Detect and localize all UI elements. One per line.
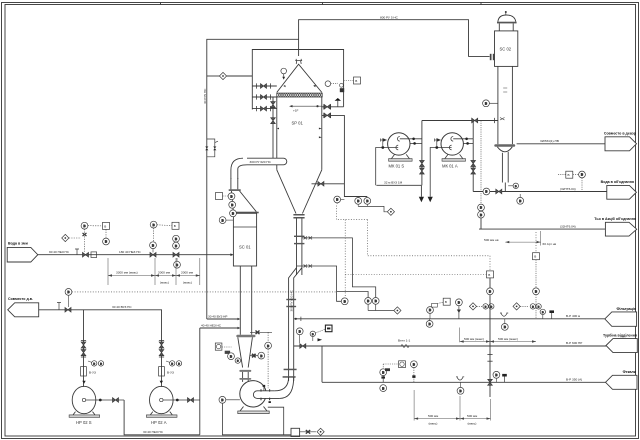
solenoid box NO: [225, 351, 230, 354]
svg-text:(макс): (макс): [160, 281, 169, 285]
dotted signal path center: [336, 203, 536, 298]
flag L2 outflow left: [8, 303, 39, 317]
diamond connector mid: [387, 208, 394, 215]
SC01 top flange: [229, 189, 241, 191]
MK01A drain drop: [471, 139, 476, 192]
svg-text:30 40 ВУЗ НС: 30 40 ВУЗ НС: [112, 305, 132, 309]
instrument circle B1 venturi: [228, 353, 235, 360]
circle T on x536 drop: [533, 253, 540, 319]
riser line from SP01 right taps: [344, 115, 367, 196]
diamond connector lower: [394, 307, 401, 314]
svg-text:300 РУ 620 НС: 300 РУ 620 НС: [250, 160, 272, 164]
svg-text:32РМ4(1)-НВ: 32РМ4(1)-НВ: [540, 139, 559, 143]
svg-text:B: B: [355, 79, 357, 83]
svg-text:B: B: [534, 255, 536, 259]
instrument circle below square B: [103, 229, 110, 245]
wire top header from SP01 vent to SC02 drop: [299, 20, 469, 57]
svg-text:+1F: +1F: [293, 108, 299, 112]
compressor MK01A: [441, 133, 473, 162]
instrument circle L2: [334, 196, 345, 203]
wire water line y254.7: [38, 254, 232, 256]
strainer on NP02A drop: [159, 367, 174, 376]
svg-text:Тьо в Акціб об'єднання: Тьо в Акціб об'єднання: [594, 217, 636, 221]
svg-text:В-Р 600 НР: В-Р 600 НР: [566, 341, 582, 345]
discharge riser MK01S: [420, 121, 425, 186]
svg-text:Фекали: Фекали: [623, 370, 636, 374]
diamond sensor 1 on line A: [469, 303, 494, 310]
base drain drop: [268, 407, 284, 435]
vent arrow on line A right: [549, 310, 554, 318]
SP01 left tap y97: [252, 94, 276, 99]
SC02 level dimension: [505, 231, 540, 246]
flag R3: [605, 222, 636, 236]
strainer on NP02S drop: [81, 367, 96, 376]
discharge header down and right: [124, 400, 200, 435]
square instrument right of SP01 box: [344, 77, 361, 84]
flag R1 line: [517, 143, 605, 145]
square near gauge: [437, 298, 450, 305]
svg-text:(макс): (макс): [468, 421, 477, 425]
svg-text:3300 мм (макс): 3300 мм (макс): [116, 271, 138, 275]
svg-text:(макс): (макс): [183, 281, 192, 285]
link B to C: [321, 346, 323, 382]
flag L1 water inlet: [7, 247, 38, 262]
valve bypass on line x206.8: [205, 139, 218, 157]
svg-text:Вода в зми: Вода в зми: [8, 242, 28, 246]
gauge pair NP02A: [166, 361, 182, 366]
valve V1 on water line: [83, 252, 89, 257]
instrument circles A/E pair: [355, 197, 362, 207]
square and circle cluster above R2: [558, 171, 585, 191]
svg-text:B: B: [568, 173, 570, 177]
vessel SC01 body: [233, 213, 256, 266]
wire branch left header y39 to vertical x206.8: [207, 39, 299, 319]
flag R2: [607, 185, 637, 199]
svg-text:SP 01: SP 01: [292, 121, 304, 126]
instrument circle F above: [81, 222, 88, 251]
instrument circle H right of screen: [325, 81, 344, 92]
svg-text:МК 01 A: МК 01 A: [442, 164, 458, 169]
riser pipe upper: [296, 219, 298, 276]
control circle B with actuator on line A: [456, 299, 463, 319]
column tick marks: [500, 88, 507, 120]
SC02 neck: [498, 23, 500, 31]
venturi lower spool: [242, 372, 244, 382]
svg-text:НР 02 S: НР 02 S: [76, 420, 92, 425]
SC02 vent stem: [505, 11, 507, 15]
flag R4: [605, 312, 637, 326]
SP01 internal level arrow: [289, 105, 322, 107]
flag R1: [605, 137, 637, 151]
valve at line B start: [300, 344, 306, 349]
svg-text:(32НТ6.04): (32НТ6.04): [560, 187, 576, 191]
SC02 column: [497, 66, 499, 144]
square B above water line: [88, 222, 110, 229]
svg-text:2000 мм: 2000 мм: [181, 271, 193, 275]
wire suction header y309.8: [39, 309, 162, 311]
SC01 reducer cone: [232, 191, 234, 212]
svg-text:Совместо д.в.: Совместо д.в.: [8, 297, 33, 301]
instrument circle T1 on SC01 inlet: [228, 193, 235, 200]
riser tap line 1 to circles: [302, 236, 376, 297]
pump NP02S suction drop: [81, 310, 86, 387]
vessel SP01 outer hood box: [252, 50, 343, 110]
SP01 right tap y115.1: [322, 113, 345, 118]
svg-text:40 40 НЕЗ НС: 40 40 НЕЗ НС: [201, 324, 222, 328]
venturi throat flange: [239, 370, 251, 372]
drain diamond connector: [317, 428, 324, 435]
flag R5: [606, 339, 637, 353]
instrument circle T upper: [150, 221, 157, 242]
blower outlet duct capsule: [253, 385, 279, 403]
riser tap line 2 to circles: [297, 265, 368, 302]
SC02 bottom bell flange: [494, 144, 515, 147]
vessel SC02 body: [495, 31, 518, 67]
wire diamond feed to SP01: [207, 75, 220, 77]
svg-text:800 РУ 5 НС: 800 РУ 5 НС: [380, 16, 399, 20]
venturi cone: [238, 337, 243, 367]
svg-text:60 Арт нв: 60 Арт нв: [543, 242, 557, 246]
svg-text:B: B: [104, 224, 106, 228]
svg-text:500 мм (макс): 500 мм (макс): [498, 337, 518, 341]
dotted signal line y291.9: [72, 291, 337, 293]
process line A to flag R4: [294, 318, 605, 320]
diamond sensor 2 on line A: [513, 303, 541, 310]
riser elbow into duct: [275, 377, 294, 398]
stacked circles feeding flag R3: [478, 204, 485, 229]
SC02 bell bowl: [497, 147, 512, 152]
pump NP02S: [69, 381, 124, 418]
svg-text:В-Р 400 м: В-Р 400 м: [566, 314, 580, 318]
instrument circles A/A pair lower: [365, 298, 394, 311]
SP01 left tap y108.6: [252, 106, 276, 111]
svg-text:НР 02 A: НР 02 A: [151, 420, 167, 425]
svg-text:Турбіна відділення: Турбіна відділення: [603, 334, 637, 338]
strainer box on water line: [91, 252, 97, 258]
square near T: [157, 222, 179, 229]
blower volute SB: [240, 381, 266, 407]
valve tap on SP01 cone wall: [312, 182, 345, 187]
gauge pair NP02S: [88, 361, 104, 366]
circle below line A left: [426, 319, 433, 328]
MK01S suction: [376, 139, 399, 186]
svg-text:300 РУ 600 НС: 300 РУ 600 НС: [289, 289, 293, 311]
circle pair with square near line B: [310, 325, 332, 341]
svg-text:32 м ВУЗ 1М: 32 м ВУЗ 1М: [384, 181, 403, 185]
drain pot box: [291, 428, 300, 436]
instrument square with circle left of venturi: [215, 343, 231, 350]
SC02 inlet nozzle flange: [469, 56, 490, 58]
svg-text:180 40 НЕЗ НС: 180 40 НЕЗ НС: [119, 250, 142, 254]
svg-text:В-УЗ: В-УЗ: [89, 370, 96, 374]
pump NP02S discharge valve: [113, 398, 119, 403]
SP01 left drop pipe with valves: [271, 97, 276, 158]
circle small above line A right: [540, 309, 545, 318]
SP01 wall tick arrows: [277, 128, 322, 139]
instrument circle on R2 line: [483, 188, 490, 195]
venturi throat tap with valve and circle A: [250, 352, 265, 359]
svg-text:МК 01 S: МК 01 S: [389, 164, 405, 169]
svg-text:Фільтрація: Фільтрація: [616, 307, 636, 311]
discharge header to SC02 column: [422, 118, 498, 123]
svg-text:SC 02: SC 02: [500, 47, 512, 52]
valve on header: [65, 308, 71, 313]
main riser pipe from SP01 apex: flanges: [293, 214, 304, 216]
svg-text:Вент 1-1: Вент 1-1: [398, 339, 411, 343]
valve V2 on water line: [150, 252, 156, 257]
instrument circle A blower: [219, 396, 240, 403]
process line C to flag R6: [322, 381, 606, 383]
flag R6: [606, 375, 638, 389]
instrument circles on drain: [508, 183, 518, 188]
SP01 left tap y86: [252, 83, 276, 88]
SP01 right tap y106.8: [322, 98, 344, 109]
instrument circle B2 venturi: [235, 358, 240, 363]
svg-text:(макс): (макс): [429, 421, 438, 425]
instrument circle T3: [230, 210, 237, 217]
hose symbol on line B: [401, 345, 409, 348]
svg-text:Совместо в деаэр: Совместо в деаэр: [604, 132, 637, 136]
riser pipe jog: [289, 268, 297, 381]
svg-text:30 40 ВУЗ НР: 30 40 ВУЗ НР: [208, 315, 228, 319]
riser capsule pipe into SP01: [247, 158, 287, 165]
blower drain line: [222, 403, 291, 435]
breather on line A: [500, 313, 508, 316]
instrument circle on dashed drop: [265, 332, 272, 388]
diamond connector near F: [62, 234, 81, 241]
gauge with NO box on line A: [427, 304, 438, 319]
pump NP02A: [146, 381, 199, 418]
dimension 500/500 bottom right: [414, 390, 490, 421]
stub above blower with valve: [250, 331, 272, 335]
dimension 500/500 between lines: [460, 328, 536, 343]
SP01 cone bottom: [277, 170, 296, 214]
svg-text:500 мм: 500 мм: [467, 414, 477, 418]
svg-text:Вода в об'єднання: Вода в об'єднання: [601, 180, 634, 184]
SC01 body flange: [231, 212, 259, 214]
compressor MK01S: [388, 133, 422, 162]
circle above line B start: [296, 328, 303, 343]
drain valve: [300, 430, 316, 434]
SC01 inlet pipe vertical: [230, 178, 232, 189]
process line B to flag R5: [294, 345, 606, 347]
SP01 top nozzle: [295, 59, 302, 64]
suction air line with silencer arrow: [376, 184, 421, 186]
diamond connector D1: [219, 72, 226, 79]
breather on line C: [456, 377, 464, 380]
MK01A suction: [428, 139, 452, 203]
svg-text:2000 мм: 2000 мм: [158, 271, 170, 275]
instrument circle A on SP01 triangle: [281, 68, 287, 79]
venturi top flange: [236, 335, 255, 338]
instrument circle below line at CV1: [174, 258, 181, 268]
valve on R2 line: [496, 189, 502, 194]
vessel SP01 inner walls: [276, 97, 278, 170]
svg-text:В-Р 350 (А): В-Р 350 (А): [566, 378, 582, 382]
svg-text:90 40 НЕЗ НС: 90 40 НЕЗ НС: [49, 250, 70, 254]
MK01A discharge riser: [472, 121, 474, 139]
svg-text:500 мм (макс): 500 мм (макс): [464, 337, 484, 341]
svg-text:500 мм нв: 500 мм нв: [484, 238, 499, 242]
control valve cluster on line C: [380, 361, 417, 392]
svg-text:40 РУ5 НС: 40 РУ5 НС: [203, 88, 207, 104]
control valve CV1 with actuator circles: [173, 235, 180, 257]
vent tick on water line: [75, 249, 79, 255]
svg-text:SC 01: SC 01: [239, 245, 251, 250]
vent tick on header: [57, 303, 61, 310]
circle and vent on line C: [493, 371, 500, 382]
blower base: [240, 407, 267, 412]
vertical utility line x490: [487, 271, 494, 319]
instrument square left of SC01 inlet: [216, 193, 229, 200]
SP01 screen deck (hatched): [277, 93, 322, 97]
SC02 dome: [498, 15, 516, 22]
circle below line C: [457, 382, 464, 394]
instrument circle G: [341, 298, 348, 305]
dimension run 3300/2000/2000: [108, 258, 200, 285]
pump NP02A discharge valve: [188, 398, 194, 403]
instrument circle T2: [229, 201, 236, 208]
flag R2 line: [473, 191, 607, 193]
circle below breather: [501, 319, 508, 331]
instrument circle A on column: [483, 100, 498, 107]
instrument circle above V2: [150, 242, 157, 253]
discharge riser x199.8: [199, 328, 201, 435]
SC02 top flange: [497, 22, 517, 24]
svg-text:500 мм: 500 мм: [428, 414, 438, 418]
link to diamond: [358, 206, 387, 211]
svg-text:B: B: [445, 300, 447, 304]
pump NP02A suction drop: [159, 310, 164, 387]
svg-text:B: B: [174, 224, 176, 228]
svg-text:В-УЗ: В-УЗ: [167, 370, 174, 374]
wire from x206.8 drop to SC01 outlet y319: [207, 318, 241, 321]
wire to SC01 outlet y328: [200, 327, 241, 330]
flag R3 line: [479, 228, 605, 230]
instrument circle above valve: [65, 289, 72, 308]
SC02 drain pipe: [501, 153, 503, 183]
svg-text:B: B: [488, 273, 490, 277]
SC01 outlet pipe: [239, 266, 241, 335]
svg-text:30 40 НЕЗ НС: 30 40 НЕЗ НС: [143, 430, 164, 434]
signal drop from header: [480, 121, 482, 205]
instrument circle L: [219, 217, 233, 224]
svg-text:(32НТ6.04): (32НТ6.04): [560, 224, 576, 228]
elbow riser to SC01: [231, 158, 247, 179]
wire diamond to box: [227, 75, 253, 77]
SP01 distributor triangle: [277, 64, 322, 92]
